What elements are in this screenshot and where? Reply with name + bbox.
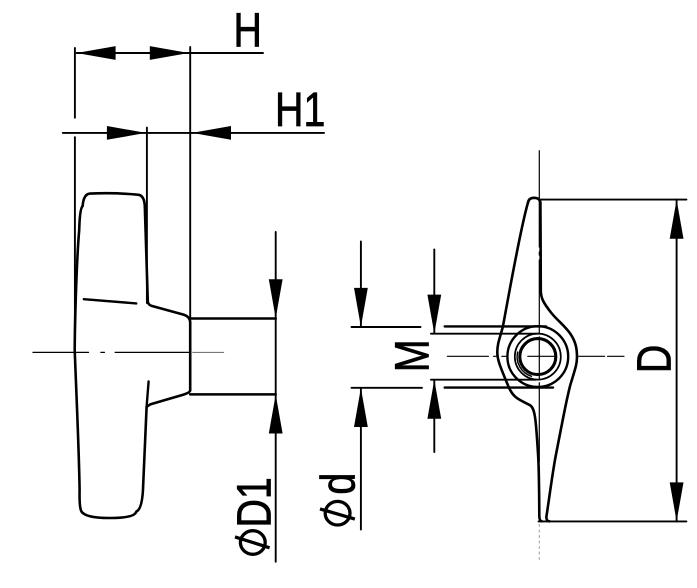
arrow H right (150, 46, 189, 60)
wire: left view upper wing front-face edge (84, 299, 137, 303)
arrow phid down (354, 288, 368, 327)
right view wing left S-edge (497, 203, 541, 522)
svg-text:H: H (233, 4, 261, 58)
svg-text:H1: H1 (275, 84, 325, 138)
arrow H1 right (107, 126, 146, 140)
dimension extension lines left view (63, 47, 687, 562)
thread inner lines right view (431, 333, 538, 335)
thread major diameter arc (517, 352, 531, 376)
extension line H/H1 right (hub face) (189, 47, 191, 318)
extension line D top (540, 199, 686, 201)
arrow D down (670, 482, 684, 521)
wire: hub bottom line left view (190, 393, 276, 396)
arrow phiD1 up (269, 395, 283, 434)
arrow M down (427, 295, 441, 334)
label phiD1 phi symbol (235, 531, 270, 555)
label phid phi symbol (320, 501, 355, 525)
wire: hub top line left view (190, 317, 276, 320)
dimension line phid (360, 242, 362, 327)
dimension line phiD1 (275, 232, 277, 562)
dimension line M (433, 249, 435, 333)
right view wing top tip dome (528, 198, 540, 203)
extension segments phid (352, 326, 421, 328)
horizontal centerline right view (447, 355, 624, 357)
right view wing right S-edge (540, 203, 577, 522)
dimension line D (676, 200, 678, 522)
svg-text:M: M (386, 339, 440, 372)
vertical centerline right view (538, 151, 540, 560)
shank outer tangent lines right view (445, 325, 546, 327)
wire: left view wing knob outline (75, 193, 191, 518)
svg-text:D1: D1 (228, 477, 282, 527)
centerline left view (33, 351, 224, 353)
svg-text:D: D (628, 345, 682, 373)
dimension line H1 (63, 132, 324, 134)
arrow phiD1 down (269, 279, 283, 318)
hub outer circle (507, 326, 568, 387)
extension line D bottom (with knob bottom edge) (539, 520, 687, 522)
arrow D up (670, 200, 684, 239)
arrow M up (427, 380, 441, 419)
extension line H1 left (146, 128, 148, 303)
threaded hole inner circle (520, 339, 556, 375)
svg-text:d: d (312, 473, 366, 495)
arrow H left (77, 46, 116, 60)
extension line H left (74, 48, 76, 118)
arrow H1 left (192, 126, 231, 140)
arrowheads (77, 46, 684, 521)
arrow phid up (354, 388, 368, 427)
wire: left view lower wing edge stub (147, 382, 149, 407)
dimension line H (77, 52, 263, 54)
hub middle circle (515, 334, 561, 380)
